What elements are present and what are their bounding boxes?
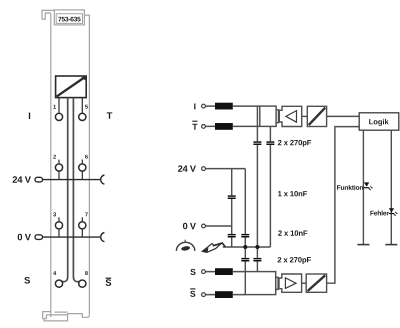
tick pin7 (81, 217, 83, 221)
pin 1 contact circle (55, 113, 62, 120)
isolator top box (307, 106, 326, 126)
label T-bar schematic (192, 124, 197, 130)
module right edge (84, 15, 89, 315)
capacitor C5 10nF plates (241, 234, 249, 236)
merge tab top (276, 110, 278, 123)
label Funktion (337, 185, 363, 190)
tick pin3 (58, 217, 60, 221)
label 24 V (13, 176, 31, 183)
stub pin6 to 24V rail (81, 171, 83, 180)
pin 2 contact circle (55, 164, 62, 171)
comparator U1 box with notch (279, 106, 301, 126)
isolator bottom box (306, 274, 326, 292)
lead pin1 (58, 98, 60, 114)
LED line Fehler (390, 130, 392, 244)
wire S (205, 271, 245, 273)
S-bar overline module (106, 277, 112, 279)
label 1 x 10nF (278, 191, 307, 196)
wire I (205, 105, 259, 107)
S-bar overline schematic (190, 288, 195, 290)
foot pocket (43, 312, 51, 319)
wire 24V (205, 168, 245, 170)
terminal S-bar circle (202, 293, 206, 297)
merge tab bottom (276, 277, 278, 289)
24V power jumper contact arc (101, 175, 105, 184)
0V rail wire (43, 236, 101, 238)
pin 5 contact circle (79, 113, 86, 120)
LED line Funktion (362, 130, 364, 244)
display block with diagonal (56, 76, 87, 98)
choke S (215, 268, 233, 275)
display diagonal (57, 77, 85, 97)
choke T-bar (215, 123, 233, 130)
foot plate (44, 315, 68, 321)
pin 7 contact circle (79, 222, 86, 229)
capacitor C4 10nF plates (228, 234, 236, 236)
field arrow symbol (202, 243, 222, 253)
pin number 1 (53, 105, 56, 109)
feedback wire to Logik (327, 127, 360, 284)
field dome symbol (176, 242, 194, 251)
capacitor C1 plates (253, 141, 261, 143)
pin number 7 (85, 212, 88, 216)
choke S-bar (215, 291, 233, 298)
label S module (24, 277, 30, 284)
cap line from merge box bottom (269, 126, 271, 247)
capacitor C2 plates (266, 141, 274, 143)
T-bar overline (192, 120, 197, 122)
foot middle bar (54, 311, 67, 313)
pin number 6 (85, 155, 88, 159)
label 24 V schematic (178, 165, 196, 171)
label S-bar module (106, 279, 112, 286)
pin number 3 (53, 212, 56, 216)
label box inner (56, 14, 82, 24)
wire S-bar (205, 294, 245, 296)
foot bar Funktion (357, 244, 369, 246)
label S schematic (190, 269, 195, 275)
driver U2 triangle right (285, 278, 296, 289)
pin number 8 (85, 271, 88, 275)
module left edge (50, 13, 52, 317)
label 0 V (18, 234, 31, 241)
label box outer (54, 10, 84, 25)
field dome lens (181, 246, 191, 252)
LED symbol Fehler (389, 208, 398, 216)
wire T-bar (205, 125, 259, 127)
capacitor C3 1x10nF plates (228, 195, 236, 197)
label 0 V schematic (183, 223, 196, 230)
wire 0V (205, 225, 231, 227)
LED symbol Funktion (364, 182, 373, 190)
driver U2 box with notch (279, 274, 302, 292)
input merge box top (260, 106, 276, 126)
terminal T-bar circle (202, 125, 206, 129)
label I (29, 113, 30, 119)
pin 6 contact circle (79, 164, 86, 171)
terminal S circle (202, 270, 206, 274)
0V power jumper contact arc (101, 233, 105, 242)
24V down line with caps (244, 169, 246, 272)
lead pin5 (81, 98, 83, 114)
internal bus wire right (73, 98, 79, 282)
wire U2 to isolator (302, 282, 307, 284)
label 2 x 270pF top (278, 140, 311, 147)
terminal 24V circle (202, 167, 206, 171)
output merge box bottom (245, 272, 275, 295)
capacitor C6 270pF plates (241, 258, 249, 260)
terminal 0V circle (202, 224, 206, 228)
capacitor C7 270pF plates (253, 258, 261, 260)
pin 4 contact circle (55, 280, 62, 287)
tick pin6 (81, 160, 83, 164)
pin number 4 (53, 271, 56, 275)
label I schematic (194, 103, 195, 109)
choke I (215, 103, 233, 110)
pin number 2 (53, 155, 56, 159)
terminal I circle (202, 104, 206, 108)
wire U1 to isolator (302, 115, 308, 117)
stub pin7 to 0V rail (81, 229, 83, 237)
pin 3 contact circle (55, 222, 62, 229)
pin number 5 (85, 105, 88, 109)
release hook latch (42, 10, 54, 19)
junction node B (255, 245, 259, 249)
stub pin2 to 24V rail (58, 171, 60, 180)
comparator U1 triangle left (286, 111, 297, 123)
24V rail wire (43, 179, 101, 181)
24V branch vertical with caps (231, 169, 233, 247)
cap line from I wire (256, 106, 258, 272)
label 2 x 10nF (278, 230, 307, 235)
label Fehler (370, 211, 389, 216)
Logik box (359, 113, 399, 130)
junction node A (243, 245, 247, 249)
tick pin2 (58, 160, 60, 164)
field dome tick (184, 240, 186, 243)
foot right step (68, 314, 90, 318)
isolator top diagonal (309, 108, 326, 125)
stub pin3 to 0V rail (58, 229, 60, 237)
0V plug terminal (35, 235, 43, 240)
label T (107, 112, 113, 118)
label 2 x 270pF bottom (278, 257, 311, 264)
wire isolator to Logik (327, 115, 360, 117)
foot bar Fehler (385, 244, 397, 246)
label 753-635 (58, 17, 80, 22)
isolator bottom diagonal (308, 275, 326, 291)
internal bus wire left (62, 98, 67, 282)
field equipotential line (223, 246, 271, 248)
pin 8 contact circle (79, 280, 86, 287)
24V plug terminal (35, 177, 43, 182)
label Logik (369, 119, 389, 126)
label S-bar schematic (190, 291, 195, 297)
field arrow dark edge (213, 243, 226, 247)
